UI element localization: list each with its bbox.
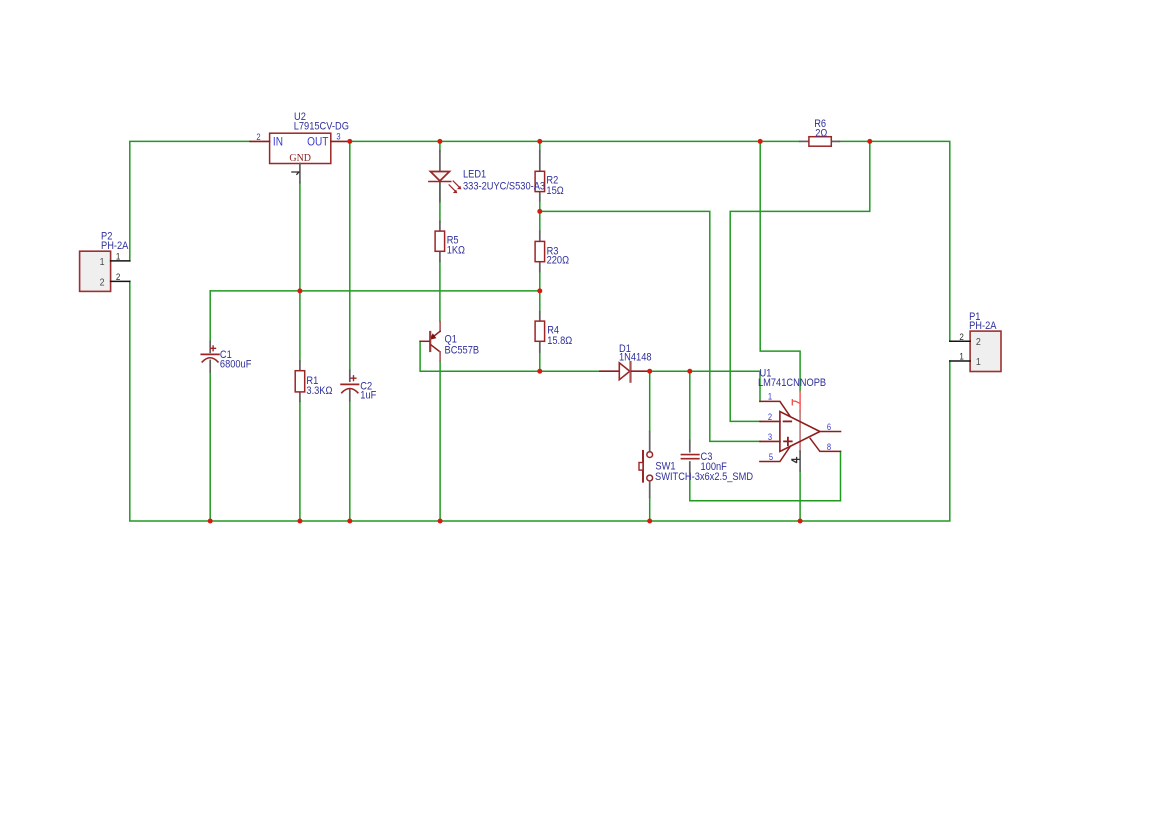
junction node gnd-R3R4: [537, 288, 542, 293]
wire op-amp pin7 below to bottom rail: [799, 471, 801, 521]
transistor Q1: [439, 322, 441, 332]
P2 pin 2 stub: [111, 280, 130, 282]
wire top rail from R6 right to corner down to P1 pin2: [839, 141, 949, 341]
svg-text:6800uF: 6800uF: [220, 359, 251, 371]
capacitor C2: [349, 370, 351, 381]
diode D1: [600, 370, 619, 372]
svg-text:220Ω: 220Ω: [547, 255, 570, 267]
svg-text:2: 2: [116, 271, 121, 282]
op-amp pin 1: [760, 401, 790, 416]
junction node D1-C3: [687, 369, 692, 374]
svg-text:8: 8: [827, 441, 832, 452]
wire gnd horizontal C1 to R2R3 node: [210, 290, 540, 292]
svg-text:PH-2A: PH-2A: [101, 240, 129, 252]
capacitor C3: [689, 440, 691, 451]
connector P2: [80, 251, 111, 291]
op-amp pin 3: [760, 440, 780, 442]
wire SW1 branch: [649, 371, 651, 431]
junction node rail C2: [347, 519, 352, 524]
wire D1 cathode net to pin1 drop: [650, 371, 760, 401]
wire top rail right from U2 OUT to R6 left: [350, 140, 800, 142]
regulator U2: [270, 133, 331, 163]
op-amp pin 6: [820, 431, 841, 433]
op-amp pin number 4: [792, 458, 799, 463]
svg-text:5: 5: [769, 451, 774, 462]
LED LED1: [439, 151, 441, 171]
op-amp pin4 lead: [799, 451, 801, 471]
wire R2 column segments: [539, 141, 541, 151]
svg-text:BC557B: BC557B: [445, 345, 480, 357]
svg-text:333-2UYC/S530-A3: 333-2UYC/S530-A3: [463, 181, 545, 193]
resistor R3: [539, 231, 541, 241]
wire bottom rail from P2 pin2 down, across, up to P1 pin1: [130, 281, 950, 521]
svg-text:3: 3: [336, 131, 341, 142]
svg-text:GND: GND: [289, 153, 311, 164]
wire top rail left from P2 pin1 up and right to U2 IN: [130, 141, 250, 261]
wire C3 branch: [689, 371, 691, 440]
junction node gnd-R1: [297, 288, 302, 293]
svg-text:LM741CNNOPB: LM741CNNOPB: [758, 377, 826, 389]
junction node rail R1: [297, 519, 302, 524]
junction node rail U1 pin4: [798, 519, 803, 524]
svg-text:1: 1: [976, 356, 981, 368]
switch SW1: [649, 431, 651, 451]
svg-text:15.8Ω: 15.8Ω: [547, 335, 572, 347]
svg-text:LED1: LED1: [463, 169, 487, 181]
wire node below R2 to op-amp pin3: [540, 211, 760, 441]
wire C3 bottom to op-amp pin8 return: [690, 451, 841, 500]
P1 pin 2 stub: [950, 340, 970, 342]
resistor R6: [800, 140, 809, 142]
svg-text:1N4148: 1N4148: [619, 352, 652, 364]
wire LED column segments: [439, 141, 441, 150]
op-amp pin 8: [810, 438, 840, 451]
svg-text:1: 1: [100, 256, 105, 268]
svg-text:2Ω: 2Ω: [815, 128, 827, 140]
svg-text:PH-2A: PH-2A: [969, 320, 997, 332]
resistor R1: [299, 361, 301, 371]
svg-text:1uF: 1uF: [360, 390, 376, 402]
connector P1: [970, 331, 1001, 371]
svg-text:2: 2: [100, 277, 105, 289]
junction node R6 right: [867, 139, 872, 144]
wire R6 right node down and to op-amp pin2: [730, 141, 870, 421]
junction node R2-R3: [537, 209, 542, 214]
svg-text:100nF: 100nF: [701, 461, 727, 473]
U2 pin 2 stub: [250, 140, 269, 142]
svg-text:2: 2: [256, 131, 261, 142]
op-amp minus: [784, 420, 792, 422]
junction node R4 bottom: [537, 369, 542, 374]
svg-text:15Ω: 15Ω: [546, 185, 564, 197]
P1 pin 1 stub: [950, 360, 970, 362]
svg-text:1: 1: [768, 391, 773, 402]
junction node LED top: [437, 139, 442, 144]
capacitor C1: [209, 341, 211, 352]
wire U2 GND down through R1 column to bottom rail: [299, 183, 301, 361]
svg-text:1: 1: [959, 351, 964, 362]
svg-text:2: 2: [959, 331, 964, 342]
op-amp pin number 7: [792, 400, 800, 405]
svg-text:OUT: OUT: [307, 136, 328, 149]
svg-text:L7915CV-DG: L7915CV-DG: [294, 121, 349, 133]
svg-text:2: 2: [976, 336, 981, 348]
op-amp pin7 lead: [799, 392, 801, 412]
svg-text:2: 2: [768, 411, 773, 422]
wire C1 branch vertical: [209, 291, 211, 341]
junction node supply top: [758, 139, 763, 144]
junction node rail C1: [208, 519, 213, 524]
wire supply from R6 left node down to op-amp pin7: [760, 141, 800, 391]
resistor R4: [539, 312, 541, 322]
junction node D1-SW1: [647, 369, 652, 374]
op-amp pin 2: [760, 420, 780, 422]
junction node rail SW1: [647, 519, 652, 524]
op-amp plus: [784, 438, 792, 446]
op-amp pin 5: [760, 446, 790, 461]
svg-text:6: 6: [827, 421, 832, 432]
svg-text:1: 1: [116, 251, 121, 262]
svg-text:1KΩ: 1KΩ: [447, 245, 466, 257]
svg-text:3.3KΩ: 3.3KΩ: [306, 385, 332, 397]
junction node OUT/C2: [347, 139, 352, 144]
U2 pin 3 stub: [331, 140, 350, 142]
resistor R2: [539, 151, 541, 171]
svg-text:3: 3: [768, 432, 773, 443]
U2 GND pin lead: [299, 164, 301, 183]
junction node R2 top: [537, 139, 542, 144]
junction node rail Q1: [438, 519, 443, 524]
svg-text:IN: IN: [273, 136, 283, 149]
wire C2 branch vertical from OUT node: [349, 141, 351, 370]
resistor R5: [439, 222, 441, 232]
P2 pin 1 stub: [111, 260, 130, 262]
wire Q1 base loop and D1 anode net: [420, 341, 600, 371]
